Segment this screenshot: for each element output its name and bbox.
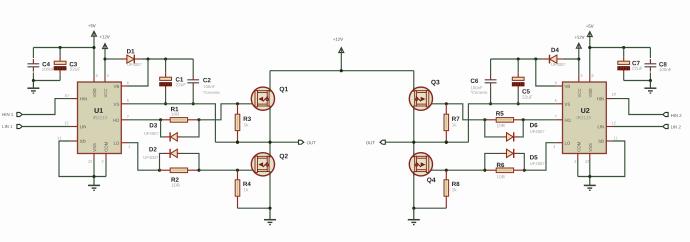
wire U2 VSS pin 13 down (589, 160, 591, 177)
junction C6 bottom (489, 102, 492, 105)
diode D4 (542, 48, 579, 66)
pin number 2 (U1 COM) (102, 160, 104, 163)
wire Q2 source to ground (269, 174, 271, 209)
wire OUT node (left) (215, 141, 298, 143)
capacitor C8 (645, 48, 672, 81)
wire D4 cathode to VB bootstrap rail (right) (491, 58, 543, 60)
pin number 2 (U2 COM) (575, 160, 577, 163)
wire U2 VB pin 6 riser (536, 59, 556, 86)
junction R1/D3 left (159, 118, 162, 121)
junction OUT / Q3 Q4 (412, 141, 415, 144)
wire Q1 source to OUT node (269, 108, 271, 142)
junction Q2 source / ground (268, 207, 271, 210)
junction +5V rail / VDD stem (right) (588, 46, 591, 49)
node OUT flag (left) (299, 140, 316, 144)
wire VS pin 5 to output node (128, 104, 215, 142)
power +5V (left) (88, 24, 96, 75)
pin number 6 (U1 VB) (127, 82, 129, 85)
power +12V (center) (333, 38, 344, 71)
pin number 1 (U2 LO) (553, 145, 555, 148)
junction C1 top (164, 57, 167, 60)
junction +5V rail / VDD stem (92, 46, 95, 49)
junction C1 bottom (164, 102, 167, 105)
wire Q3 source to OUT node (right) (413, 108, 415, 142)
node LIN 1 input flag (3, 124, 23, 128)
junction R2/D2 right (197, 169, 200, 172)
junction R8 top (445, 169, 448, 172)
capacitor C5 (512, 59, 532, 104)
wire Q4 source to ground (413, 174, 415, 209)
pin number 10 (U1 HIN) (65, 94, 69, 97)
wire C4/C3 bottom rail (33, 80, 60, 82)
pin number 13 (U2 VSS) (585, 160, 589, 163)
power +12V (right) (575, 36, 585, 76)
resistor R5 (485, 111, 556, 127)
capacitor C2 (187, 59, 220, 104)
wire R4 bottom to Q2 source (238, 207, 271, 209)
wire U2 SD pin 11 to ground net (578, 141, 625, 177)
junction C2 bottom (192, 102, 195, 105)
op-amp U1 IR2110 gate driver (71, 76, 128, 160)
pin number 5 (U1 VS) (127, 99, 129, 102)
op-amp U2 IR2110 gate driver (556, 76, 613, 160)
wire C7/C8 bottom rail (624, 80, 651, 82)
wire R8 bottom to Q4 source (414, 207, 447, 209)
wire U2 COM pin 2 down (577, 160, 579, 177)
junction Q4 source / ground (412, 207, 415, 210)
junction OUT / R7 (445, 141, 448, 144)
resistor R7 (444, 104, 459, 142)
capacitor C3 (54, 48, 80, 81)
wire VB pin 6 riser (128, 59, 148, 86)
pin number 12 (U1 LIN) (65, 122, 69, 125)
pin number 6 (U2 VB) (555, 82, 557, 85)
capacitor C4 (28, 48, 55, 81)
junction R3 bottom (236, 141, 239, 144)
wire +12V bus to Q1/Q3 drains (270, 70, 414, 72)
junction OUT / Q1 Q2 (268, 141, 271, 144)
diode D5 (485, 149, 545, 170)
resistor R2 (160, 168, 200, 187)
diode D1 (105, 49, 142, 66)
transistor Q2 (251, 153, 288, 176)
resistor R4 (235, 170, 251, 208)
resistor R6 (485, 163, 525, 179)
capacitor C6 (470, 59, 496, 104)
junction C8 bottom / ground (649, 79, 652, 82)
transistor Q1 (251, 87, 288, 111)
wire +5V rail to C7/C8 (right) (590, 47, 651, 49)
ground under C4 (27, 81, 39, 94)
wire LO gate net to Q2 (199, 169, 255, 171)
junction C3 top (59, 46, 62, 49)
junction R6/D5 right (523, 169, 526, 172)
node LIN 2 input flag (663, 124, 681, 128)
pin number 3 (U2 VCC) (581, 74, 583, 77)
node HIN 2 input flag (663, 112, 682, 117)
junction R7 bottom (445, 141, 448, 144)
junction R2/D2 left (158, 169, 161, 172)
resistor R3 (235, 104, 251, 142)
wire LIN1 to U1 LIN pin 12 (22, 126, 71, 128)
junction R4 top (236, 169, 239, 172)
pin number 5 (U2 VS) (555, 99, 557, 102)
wire Q4 drain to OUT node (right) (413, 142, 415, 155)
pin number 3 (U1 VCC) (107, 74, 109, 77)
wire HIN1 to U1 HIN pin 10 (22, 99, 71, 115)
wire HO gate net to Q3 (429, 104, 485, 120)
junction C5 top (517, 57, 520, 60)
resistor R8 (444, 170, 459, 208)
node OUT flag (right) (366, 140, 385, 144)
junction C5 bottom (517, 102, 520, 105)
wire HIN2 to U2 HIN pin 10 (613, 99, 663, 115)
node HIN 1 input flag (3, 112, 23, 116)
ground under Q4 (408, 208, 420, 224)
ground under U1 (88, 177, 100, 191)
wire LO gate net to Q4 (429, 169, 485, 171)
pin number 11 (U1 SD) (58, 137, 62, 140)
transistor Q4 (409, 153, 435, 184)
junction VB riser (146, 57, 149, 60)
pin number 7 (U1 HO) (127, 115, 129, 118)
junction R1/D3 right (197, 118, 200, 121)
junction R6/D5 left (483, 169, 486, 172)
wire U2 LO pin 1 to low-side gate row (524, 143, 556, 171)
ground under Q2 (264, 208, 276, 224)
pin number 7 (U2 HO) (555, 115, 557, 118)
wire COM pin 2 down (105, 160, 107, 177)
wire U2 VS pin 5 to output node (468, 104, 555, 142)
junction +12V / D1 anode rail (103, 57, 106, 60)
junction VB riser (right) (534, 57, 537, 60)
resistor R1 (128, 107, 199, 122)
wire SD pin 11 to ground net (59, 141, 106, 177)
pin number 11 (U2 SD) (614, 137, 618, 140)
power +12V (left) (100, 35, 110, 75)
diode D2 (144, 147, 199, 170)
diode D3 (144, 120, 199, 142)
pin number 12 (U2 LIN) (612, 122, 616, 125)
junction OUT / R3 (236, 141, 239, 144)
wire LIN2 to U2 LIN pin 12 (613, 126, 663, 128)
wire HO gate net to Q1 (199, 104, 255, 120)
junction R7 top (445, 102, 448, 105)
capacitor C7 (618, 48, 643, 81)
pin number 9 (U2 VDD) (592, 74, 594, 77)
diode D6 (485, 120, 545, 142)
wire VSS pin 13 down (93, 160, 95, 177)
junction C4 bottom / ground (32, 79, 35, 82)
capacitor C1 (160, 59, 186, 104)
pin number 1 (U1 LO) (129, 145, 131, 148)
ground under U2 (584, 177, 596, 191)
power +5V (right) (586, 25, 594, 76)
junction +12V bus (340, 69, 343, 72)
transistor Q3 (409, 80, 439, 111)
ground under C8 (644, 81, 656, 94)
wire Q3 drain to +12V rail (413, 71, 415, 90)
pin number 13 (U1 VSS) (88, 160, 92, 163)
junction R3 top (236, 102, 239, 105)
junction C7 top (622, 46, 625, 49)
wire Q2 drain to OUT node (269, 142, 271, 155)
junction +12V / D4 anode rail (577, 57, 580, 60)
wire OUT node (right) (386, 141, 469, 143)
wire +5V rail to C4/C3 (left) (33, 47, 94, 49)
pin number 10 (U2 HIN) (612, 93, 616, 96)
junction U2 VSS / ground (588, 175, 591, 178)
pin number 9 (U1 VDD) (96, 74, 98, 77)
junction R5/D6 left (483, 118, 486, 121)
wire Q1 drain to +12V rail (269, 71, 271, 90)
junction VSS / ground (92, 175, 95, 178)
wire LO pin 1 to low-side gate row (128, 143, 160, 171)
wire D1 cathode to VB bootstrap rail (142, 58, 194, 60)
junction R5/D6 right (522, 118, 525, 121)
